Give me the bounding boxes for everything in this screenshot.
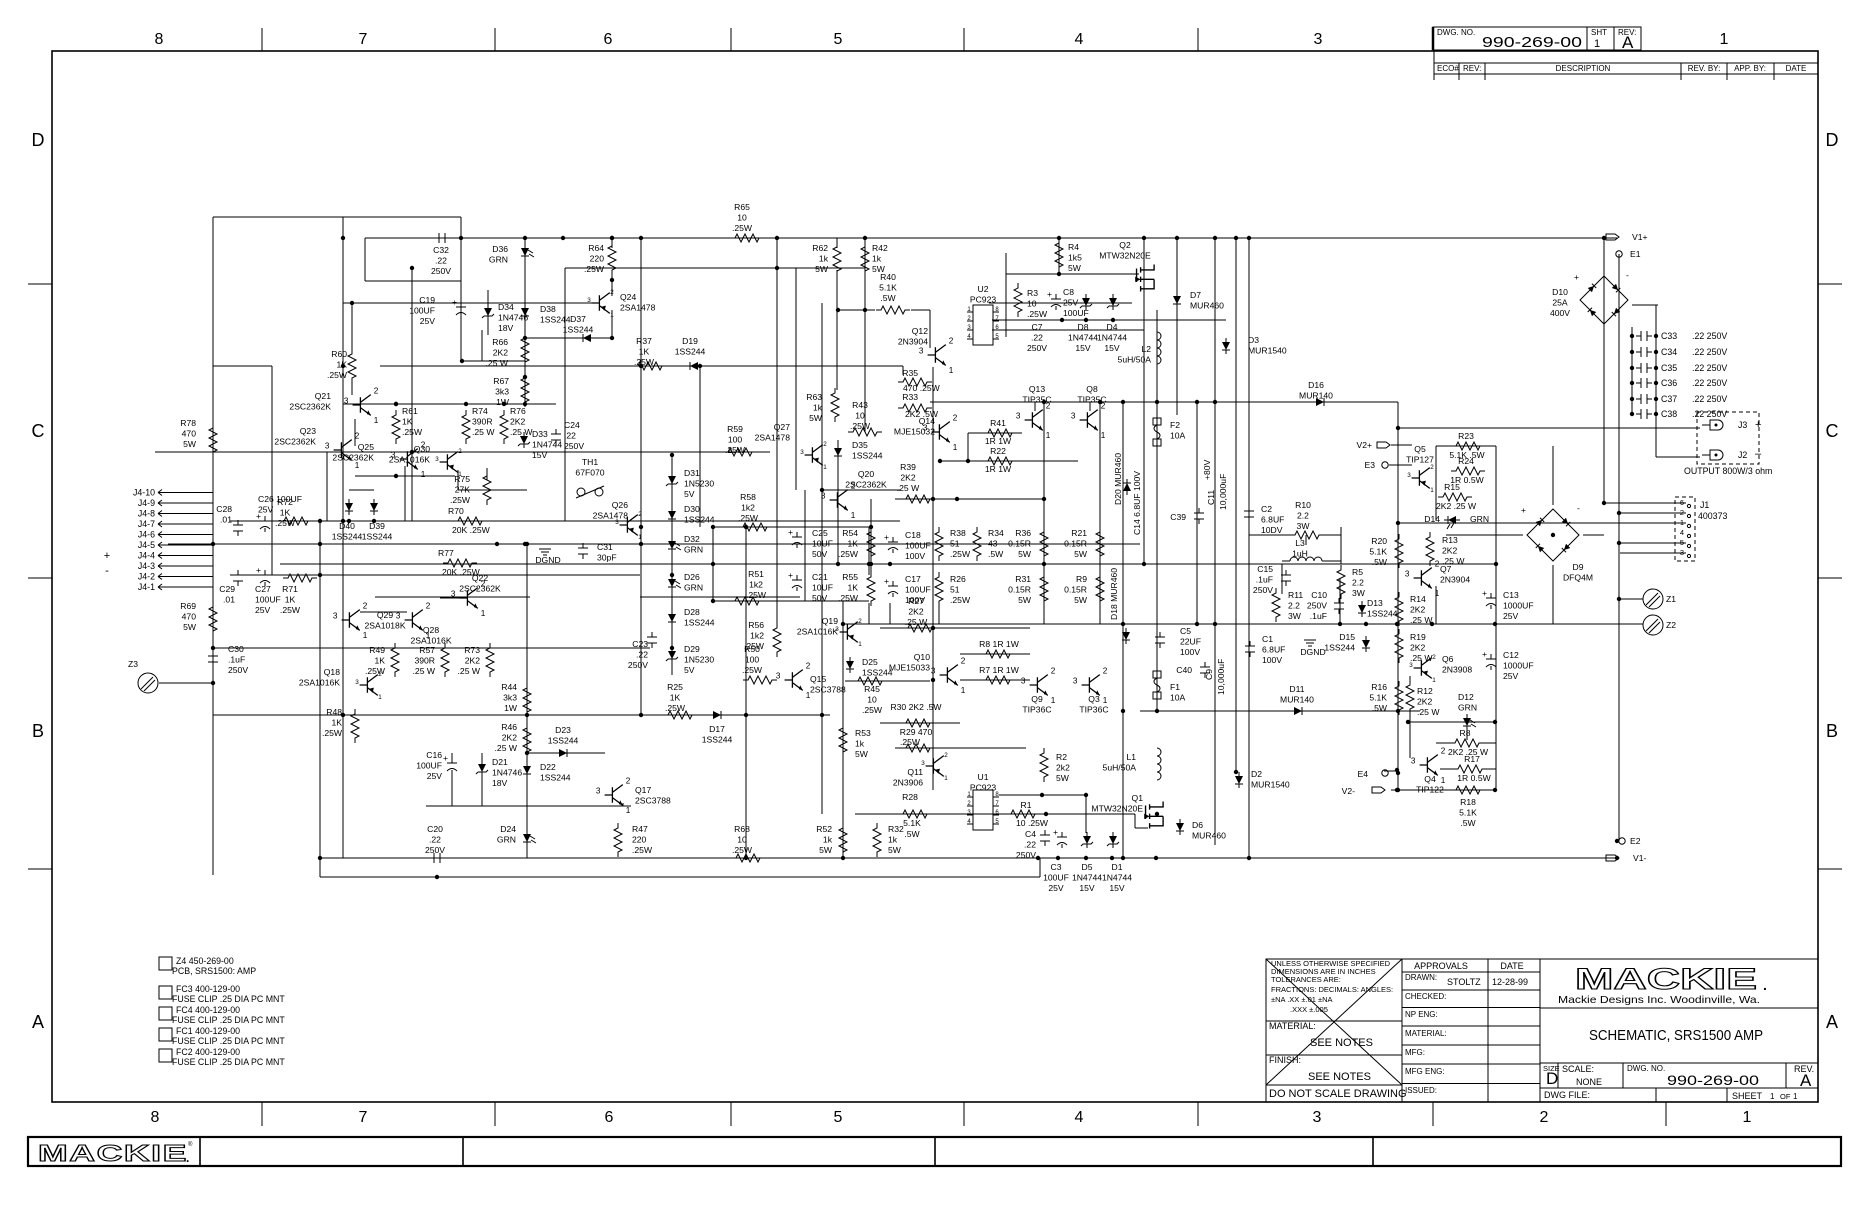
svg-text:D6: D6 — [1192, 820, 1203, 830]
diode D40 — [332, 499, 363, 542]
svg-text:+: + — [884, 576, 889, 586]
svg-text:1: 1 — [1793, 1092, 1798, 1101]
svg-text:2: 2 — [1435, 559, 1440, 568]
svg-text:J4-5: J4-5 — [138, 540, 155, 550]
part FC4 fuse clip — [159, 1007, 172, 1020]
svg-text:25V: 25V — [258, 505, 274, 515]
svg-text:1: 1 — [858, 641, 862, 648]
svg-text:R76: R76 — [510, 406, 526, 416]
svg-text:1K: 1K — [670, 693, 681, 703]
svg-text:.25 W: .25 W — [510, 427, 533, 437]
LED D32 — [668, 534, 703, 555]
transistor Q6 — [1409, 654, 1472, 684]
wire x805 vertical — [804, 490, 806, 601]
wire V2- row — [1391, 789, 1496, 791]
wire x1123 vertical — [1122, 402, 1124, 858]
transistor Q27 — [755, 422, 828, 471]
svg-text:MJE15032: MJE15032 — [894, 427, 935, 437]
svg-text:±NA .XX ±.01 ±NA: ±NA .XX ±.01 ±NA — [1271, 995, 1333, 1004]
svg-text:D19: D19 — [682, 336, 698, 346]
svg-text:.1uF: .1uF — [228, 655, 245, 665]
svg-text:C27: C27 — [255, 584, 271, 594]
svg-text:R10: R10 — [1295, 500, 1311, 510]
svg-text:5W: 5W — [855, 749, 869, 759]
resistor R66 — [486, 333, 529, 368]
svg-text:15V: 15V — [1104, 343, 1120, 353]
svg-text:3: 3 — [596, 787, 601, 796]
svg-text:3: 3 — [1680, 548, 1684, 557]
svg-text:1K: 1K — [285, 595, 296, 605]
svg-text:2: 2 — [1103, 666, 1108, 675]
resistor R21 — [1064, 527, 1104, 561]
diode D31 — [666, 468, 714, 499]
svg-text:10: 10 — [855, 411, 865, 421]
svg-text:Q24: Q24 — [620, 292, 636, 302]
transistor Q14 — [894, 413, 958, 452]
diode D29 — [666, 644, 714, 675]
wire J1 stub 2 — [1619, 512, 1686, 514]
svg-text:1W: 1W — [496, 397, 510, 407]
svg-text:1K: 1K — [336, 360, 347, 370]
svg-text:R55: R55 — [842, 572, 858, 582]
svg-text:PC923: PC923 — [970, 295, 996, 305]
approvals table — [1402, 971, 1540, 973]
svg-text:C3: C3 — [1051, 862, 1062, 872]
svg-text:C18: C18 — [905, 530, 921, 540]
resistor R1 — [1006, 800, 1040, 818]
svg-text:25A: 25A — [1552, 298, 1568, 308]
svg-text:2SC2362K: 2SC2362K — [332, 453, 374, 463]
svg-text:FRACTIONS: DECIMALS: ANG: FRACTIONS: DECIMALS: ANGLES: — [1271, 985, 1393, 994]
svg-text:3: 3 — [1021, 677, 1026, 686]
svg-text:1SS244: 1SS244 — [702, 735, 733, 745]
svg-text:.25W: .25W — [322, 728, 343, 738]
svg-text:.25W: .25W — [838, 549, 859, 559]
svg-text:L3: L3 — [1295, 538, 1305, 548]
svg-text:C7: C7 — [1032, 322, 1043, 332]
svg-text:TH1: TH1 — [582, 457, 598, 467]
svg-text:1k2: 1k2 — [749, 580, 763, 590]
svg-text:1N4744: 1N4744 — [532, 440, 562, 450]
svg-text:1N5230: 1N5230 — [684, 479, 714, 489]
svg-text:1SS244: 1SS244 — [684, 618, 715, 628]
wire x822 vertical — [821, 303, 823, 814]
resistor R72 — [275, 497, 313, 528]
wire mid rail — [280, 563, 1496, 565]
resistor R24 — [1451, 456, 1485, 475]
part Z4 PCB — [159, 957, 172, 970]
resistor R67 — [493, 373, 529, 407]
svg-text:.25 W: .25 W — [472, 427, 495, 437]
svg-text:C25: C25 — [812, 528, 828, 538]
svg-text:10: 10 — [1027, 299, 1037, 309]
svg-text:3: 3 — [1411, 757, 1416, 766]
svg-text:R30 2K2 .5W: R30 2K2 .5W — [890, 702, 942, 712]
svg-text:27K: 27K — [455, 485, 471, 495]
svg-text:.1uF: .1uF — [1310, 611, 1327, 621]
wire diode chain vertical — [671, 455, 673, 675]
diode D21 — [476, 757, 522, 788]
wire left inner vertical — [319, 521, 321, 877]
wire R41-R22 vertical — [967, 433, 969, 461]
resistor R78 — [180, 418, 217, 457]
svg-text:R70: R70 — [448, 506, 464, 516]
svg-text:J4-8: J4-8 — [138, 509, 155, 519]
resistor R70 — [448, 506, 487, 525]
svg-text:.01: .01 — [220, 515, 232, 525]
bridge rectifier D9 — [1521, 503, 1580, 561]
wire caps left bus — [1631, 327, 1633, 414]
svg-text:10: 10 — [737, 213, 747, 223]
resistor R50 — [742, 644, 777, 684]
svg-text:Q8: Q8 — [1086, 384, 1098, 394]
svg-text:3: 3 — [931, 667, 936, 676]
wire D9 bottom — [1552, 565, 1554, 624]
capacitor C5 — [1155, 626, 1201, 657]
svg-text:TIP122: TIP122 — [1416, 785, 1444, 795]
diode D37 — [563, 314, 595, 342]
svg-text:2K2: 2K2 — [1442, 546, 1458, 556]
svg-text:3: 3 — [800, 449, 804, 456]
svg-text:D10: D10 — [1552, 287, 1568, 297]
svg-text:C39: C39 — [1170, 512, 1186, 522]
wire D33 row — [458, 489, 527, 491]
svg-text:2: 2 — [953, 413, 958, 422]
svg-text:C30: C30 — [228, 644, 244, 654]
svg-text:2: 2 — [949, 336, 954, 345]
resistor R45 — [853, 677, 887, 715]
wire x343 long vertical — [342, 217, 344, 858]
svg-text:1K: 1K — [280, 508, 291, 518]
svg-text:MUR1540: MUR1540 — [1248, 346, 1287, 356]
svg-text:.25W: .25W — [1027, 309, 1048, 319]
capacitor C21 — [788, 570, 833, 603]
svg-text:25V: 25V — [420, 316, 436, 326]
svg-text:J4-10: J4-10 — [133, 488, 155, 498]
wire x1144 vertical — [1143, 238, 1145, 564]
svg-text:DATE: DATE — [1786, 64, 1807, 73]
svg-text:R73: R73 — [464, 645, 480, 655]
svg-text:V1-: V1- — [1633, 853, 1647, 863]
capacitor C26 — [256, 494, 302, 532]
svg-text:1SS244: 1SS244 — [684, 515, 715, 525]
transistor Q18 — [299, 667, 382, 701]
wire Q13 emitter — [1043, 429, 1045, 440]
svg-text:25V: 25V — [1063, 298, 1079, 308]
svg-text:100UF: 100UF — [409, 306, 435, 316]
diode D34 — [482, 302, 528, 333]
svg-text:3: 3 — [587, 297, 591, 304]
svg-text:250V: 250V — [228, 665, 248, 675]
diode D19 — [675, 336, 706, 370]
svg-text:DATE: DATE — [1500, 961, 1523, 971]
svg-text:3: 3 — [1314, 31, 1323, 48]
wire Q12 emitter vertical — [902, 366, 904, 375]
LED D26 — [668, 572, 703, 593]
svg-text:5uH/50A: 5uH/50A — [1103, 763, 1137, 773]
transistor Q25 — [332, 440, 425, 479]
svg-text:1: 1 — [944, 775, 948, 782]
svg-text:Z4 450-269-00: Z4 450-269-00 — [176, 956, 234, 966]
svg-text:Q12: Q12 — [912, 326, 928, 336]
svg-text:C37: C37 — [1661, 394, 1677, 404]
svg-text:R16: R16 — [1371, 682, 1387, 692]
resistor R51 — [730, 569, 767, 605]
wire C19 vertical — [460, 238, 462, 330]
wire R45 row — [845, 680, 930, 682]
wire R8 row — [960, 653, 1030, 655]
svg-text:+80V: +80V — [1202, 459, 1212, 480]
resistor R62 — [812, 242, 841, 276]
capacitor C31 — [578, 542, 617, 563]
wire x1340 vertical — [1339, 578, 1341, 624]
svg-text:D26: D26 — [684, 572, 700, 582]
svg-text:2.2: 2.2 — [1352, 578, 1364, 588]
wire Q13 leg — [1034, 402, 1036, 411]
svg-text:100V: 100V — [905, 551, 925, 561]
resistor R28 — [898, 792, 932, 818]
svg-text:FC1 400-129-00: FC1 400-129-00 — [176, 1026, 240, 1036]
svg-text:3: 3 — [921, 760, 925, 767]
capacitor C1 — [1245, 634, 1285, 665]
svg-text:R59: R59 — [727, 424, 743, 434]
resistor R38 — [935, 527, 971, 561]
svg-text:1: 1 — [1594, 38, 1600, 50]
wire top-left box corner — [460, 217, 462, 238]
svg-text:470: 470 — [182, 612, 197, 622]
svg-text:R56: R56 — [748, 620, 764, 630]
svg-text:MUR1540: MUR1540 — [1251, 780, 1290, 790]
svg-text:10A: 10A — [1170, 431, 1186, 441]
resistor R58 — [738, 492, 772, 531]
svg-text:R58: R58 — [740, 492, 756, 502]
wire main V1+ rail — [365, 237, 1617, 239]
optocoupler U2 — [967, 284, 999, 345]
resistor R53 — [839, 723, 871, 759]
svg-text:2SC2362K: 2SC2362K — [845, 480, 887, 490]
svg-text:1K: 1K — [402, 417, 413, 427]
diode D17 — [702, 711, 733, 745]
svg-text:D35: D35 — [852, 440, 868, 450]
wire x1044 vertical — [1043, 402, 1045, 624]
transistor Q21 — [289, 386, 378, 425]
svg-text:1N5230: 1N5230 — [684, 655, 714, 665]
LED D12 — [1458, 692, 1477, 730]
resistor R10 — [1290, 500, 1324, 539]
svg-text:2: 2 — [1441, 746, 1446, 755]
svg-text:R29 470: R29 470 — [900, 727, 933, 737]
svg-text:Q22: Q22 — [472, 573, 488, 583]
capacitor C10 — [1307, 590, 1344, 621]
svg-text:1R 0.5W: 1R 0.5W — [1457, 773, 1491, 783]
wire R59 row — [155, 451, 770, 453]
svg-text:+: + — [1482, 649, 1487, 659]
svg-text:2: 2 — [374, 386, 379, 395]
svg-text:D30: D30 — [684, 504, 700, 514]
svg-text:REV:: REV: — [1463, 64, 1481, 73]
svg-text:5W: 5W — [1018, 595, 1032, 605]
svg-text:R67: R67 — [493, 376, 509, 386]
svg-text:5.1K: 5.1K — [879, 283, 897, 293]
svg-text:.5W: .5W — [1460, 818, 1476, 828]
svg-text:5W: 5W — [888, 845, 902, 855]
svg-text:1: 1 — [638, 534, 642, 541]
resistor R3 — [1014, 283, 1048, 319]
svg-text:R23: R23 — [1458, 431, 1474, 441]
svg-text:MFG ENG:: MFG ENG: — [1405, 1067, 1445, 1076]
svg-text:C20: C20 — [427, 824, 443, 834]
resistor R55 — [838, 572, 875, 606]
transistor Q10 — [889, 652, 966, 695]
diode D2 — [1235, 769, 1290, 790]
svg-text:R68: R68 — [734, 824, 750, 834]
svg-text:1000UF: 1000UF — [1503, 661, 1534, 671]
svg-text:2K2: 2K2 — [502, 733, 518, 743]
svg-text:1k2: 1k2 — [741, 503, 755, 513]
resistor R41 — [983, 418, 1017, 437]
svg-text:MUR460: MUR460 — [1190, 301, 1224, 311]
svg-text:5: 5 — [834, 31, 843, 48]
zone ticks bottom — [261, 1102, 263, 1126]
wire Q8 emitter — [1099, 429, 1101, 440]
wire x865 vertical — [864, 238, 866, 432]
wire E4 row — [1384, 770, 1397, 772]
svg-text:Z1: Z1 — [1666, 594, 1676, 604]
svg-text:3: 3 — [1409, 662, 1413, 669]
svg-text:.25W: .25W — [742, 665, 763, 675]
transistor Q23 — [274, 426, 359, 470]
svg-text:1K: 1K — [847, 539, 858, 549]
svg-text:2SA1016K: 2SA1016K — [410, 636, 451, 646]
capacitor C4 — [1016, 829, 1050, 860]
wire R10 leads — [1249, 534, 1290, 536]
svg-text:R44: R44 — [501, 682, 517, 692]
svg-text:R62: R62 — [812, 243, 828, 253]
svg-text:TIP35C: TIP35C — [1022, 395, 1051, 405]
resistor R11 — [1272, 588, 1303, 622]
svg-text:D21: D21 — [492, 757, 508, 767]
svg-text:NP ENG:: NP ENG: — [1405, 1010, 1438, 1019]
wire R23 block top — [1436, 445, 1496, 447]
svg-text:30pF: 30pF — [597, 553, 617, 563]
svg-text:0.15R: 0.15R — [1064, 539, 1087, 549]
svg-text:100: 100 — [728, 435, 743, 445]
svg-text:5W: 5W — [183, 622, 197, 632]
wire lower second rail — [320, 876, 1040, 878]
svg-text:1: 1 — [363, 631, 368, 640]
capacitor C17 — [884, 574, 931, 605]
transistor Q12 — [898, 326, 954, 375]
resistor R40 — [876, 272, 910, 314]
wire bottom rail — [320, 857, 1617, 859]
wire top-left box top — [213, 216, 461, 218]
wire second top rail — [565, 267, 865, 269]
zone ticks right — [1818, 283, 1842, 285]
wire caps right bus — [1655, 305, 1657, 457]
inductor L2 — [1118, 332, 1161, 365]
capacitor C27 — [255, 565, 281, 615]
svg-text:MJE15033: MJE15033 — [889, 663, 930, 673]
wire R8 output row leads — [1436, 742, 1450, 744]
svg-text:D9: D9 — [1573, 562, 1584, 572]
svg-text:3W: 3W — [1288, 611, 1302, 621]
svg-text:.25 W: .25 W — [413, 666, 436, 676]
wire left box side — [212, 217, 214, 875]
svg-text:C1: C1 — [1262, 634, 1273, 644]
resistor R60 — [327, 349, 356, 383]
svg-text:390R: 390R — [414, 656, 435, 666]
svg-text:1000UF: 1000UF — [1503, 601, 1534, 611]
svg-text:250V: 250V — [1027, 343, 1047, 353]
wire C32 return vertical — [364, 238, 366, 281]
wire R39 row — [895, 498, 1044, 500]
svg-text:.22: .22 — [564, 431, 576, 441]
svg-text:.25W: .25W — [402, 427, 423, 437]
wire x746 vertical — [745, 527, 747, 858]
svg-text:7: 7 — [359, 31, 368, 48]
diode D38 — [521, 304, 571, 325]
wire x796 vertical — [795, 268, 797, 490]
transistor Q17 — [596, 776, 671, 815]
svg-text:2K2: 2K2 — [1410, 643, 1426, 653]
svg-text:2: 2 — [610, 289, 614, 296]
svg-text:R21: R21 — [1071, 528, 1087, 538]
svg-text:3: 3 — [1071, 412, 1076, 421]
capacitor C16 — [416, 750, 457, 781]
svg-text:5.1K: 5.1K — [1459, 808, 1477, 818]
svg-text:2: 2 — [858, 618, 862, 625]
svg-text:MATERIAL:: MATERIAL: — [1269, 1021, 1316, 1031]
svg-text:C21: C21 — [812, 572, 828, 582]
resistor R57 — [413, 643, 449, 677]
wire D11 row — [1140, 710, 1420, 712]
svg-text:22UF: 22UF — [1180, 637, 1201, 647]
capacitor C39 — [1170, 508, 1204, 524]
svg-text:-: - — [105, 565, 109, 577]
svg-text:Q19: Q19 — [822, 616, 838, 626]
svg-text:1: 1 — [1435, 589, 1440, 598]
svg-text:J4-2: J4-2 — [138, 572, 155, 582]
svg-text:5.1K: 5.1K — [903, 818, 921, 828]
svg-text:1k2: 1k2 — [750, 631, 764, 641]
svg-text:R42: R42 — [872, 243, 888, 253]
svg-text:Q30: Q30 — [414, 444, 430, 454]
svg-text:5W: 5W — [815, 264, 829, 274]
svg-text:1SS244: 1SS244 — [1367, 609, 1398, 619]
svg-text:C16: C16 — [426, 750, 442, 760]
svg-text:3: 3 — [1313, 1109, 1322, 1126]
svg-text:F2: F2 — [1170, 420, 1180, 430]
resistor R36 — [1008, 527, 1048, 561]
svg-text:+: + — [1047, 289, 1052, 299]
svg-text:C8: C8 — [1063, 287, 1074, 297]
wire J1 stub 5 — [1619, 542, 1686, 544]
wire R31 leg — [1043, 603, 1045, 624]
wire D9 left — [1446, 534, 1523, 536]
svg-text:D16: D16 — [1308, 380, 1324, 390]
svg-text:D5: D5 — [1082, 862, 1093, 872]
svg-text:E2: E2 — [1630, 836, 1641, 846]
svg-text:6.8UF: 6.8UF — [1261, 515, 1284, 525]
svg-text:250V: 250V — [564, 441, 584, 451]
transistor Q29 — [333, 601, 406, 640]
svg-text:100UF: 100UF — [1063, 308, 1089, 318]
svg-text:V2-: V2- — [1342, 786, 1356, 796]
svg-text:DFQ4M: DFQ4M — [1563, 573, 1593, 583]
svg-text:3: 3 — [451, 590, 456, 599]
wire D9 top — [1552, 446, 1554, 505]
svg-text:A: A — [1826, 1012, 1838, 1032]
